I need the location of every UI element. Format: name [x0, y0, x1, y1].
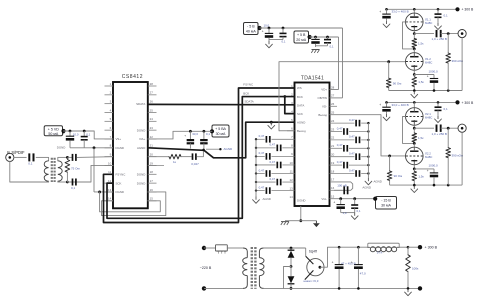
svg-text:0,1: 0,1	[444, 107, 449, 111]
svg-text:17: 17	[331, 178, 335, 182]
svg-text:0,1: 0,1	[444, 14, 449, 18]
svg-text:16: 16	[150, 188, 154, 192]
svg-text:+ 300 В: + 300 В	[462, 8, 475, 12]
svg-text:47 + 450 В: 47 + 450 В	[341, 262, 356, 266]
svg-text:12: 12	[289, 178, 293, 182]
svg-text:0,47: 0,47	[259, 185, 265, 189]
svg-text:14: 14	[108, 197, 112, 201]
svg-text:VS+: VS+	[116, 137, 122, 141]
svg-text:390 кОм: 390 кОм	[452, 154, 464, 158]
svg-text:BCK: BCK	[297, 95, 303, 99]
svg-text:14: 14	[289, 195, 293, 199]
svg-text:DGND: DGND	[116, 146, 125, 150]
svg-text:33,0 + 400 В: 33,0 + 400 В	[392, 103, 409, 107]
svg-text:0,47: 0,47	[349, 168, 355, 172]
svg-text:25: 25	[331, 111, 335, 115]
svg-text:90 Ом: 90 Ом	[393, 81, 402, 85]
svg-text:DGND: DGND	[137, 128, 146, 132]
svg-text:390 кОм: 390 кОм	[452, 59, 464, 63]
svg-text:1,5к: 1,5к	[418, 41, 424, 45]
svg-text:75 Ом: 75 Ом	[71, 166, 80, 170]
svg-text:5 Гн: 5 Гн	[377, 251, 383, 255]
svg-text:24: 24	[331, 119, 335, 123]
svg-text:23: 23	[150, 126, 154, 130]
svg-text:TDA1541: TDA1541	[301, 75, 324, 81]
svg-text:VD+: VD+	[321, 88, 327, 92]
svg-text:0,47: 0,47	[349, 152, 355, 156]
svg-text:+: +	[379, 103, 381, 107]
svg-text:0,47: 0,47	[337, 160, 343, 164]
svg-text:0,1: 0,1	[206, 132, 210, 136]
svg-text:33,0 + 400 В: 33,0 + 400 В	[392, 10, 409, 14]
svg-text:+: +	[184, 134, 186, 138]
svg-text:28: 28	[150, 82, 154, 86]
svg-text:0,47: 0,47	[337, 143, 343, 147]
svg-text:1000,0: 1000,0	[429, 164, 439, 168]
svg-text:SCK: SCK	[116, 181, 122, 185]
svg-text:+: +	[262, 29, 264, 33]
svg-text:13: 13	[289, 186, 293, 190]
svg-text:0,047: 0,047	[191, 162, 199, 166]
svg-text:Выход: Выход	[297, 129, 306, 133]
svg-text:13: 13	[108, 188, 112, 192]
svg-text:+: +	[63, 132, 65, 136]
svg-text:10: 10	[289, 161, 293, 165]
svg-text:33,0: 33,0	[192, 132, 198, 136]
svg-text:CS8412: CS8412	[122, 74, 143, 80]
svg-text:0,47: 0,47	[349, 135, 355, 139]
svg-text:AGND: AGND	[297, 120, 305, 124]
svg-text:22: 22	[331, 136, 335, 140]
svg-text:DGND: DGND	[137, 181, 146, 185]
svg-text:1,5к: 1,5к	[418, 174, 424, 178]
svg-text:Выход: Выход	[318, 113, 327, 117]
svg-text:30 мА: 30 мА	[216, 132, 226, 136]
svg-text:+: +	[332, 261, 334, 265]
svg-text:100к: 100к	[412, 266, 419, 270]
svg-text:30 мА: 30 мА	[381, 203, 391, 207]
svg-text:15: 15	[150, 197, 154, 201]
svg-text:+: +	[308, 35, 310, 39]
svg-text:DATA: DATA	[297, 103, 304, 107]
svg-text:0,47: 0,47	[349, 118, 355, 122]
svg-text:AGND: AGND	[137, 146, 145, 150]
svg-text:+: +	[427, 75, 429, 79]
svg-text:6Н8С: 6Н8С	[425, 61, 432, 65]
svg-text:0,1: 0,1	[282, 40, 286, 44]
svg-text:+ 300 В: + 300 В	[462, 101, 475, 105]
svg-text:18: 18	[150, 170, 154, 174]
svg-text:6Н8С: 6Н8С	[425, 116, 432, 120]
svg-text:11: 11	[290, 169, 293, 173]
svg-text:25: 25	[150, 108, 154, 112]
svg-text:16: 16	[331, 186, 335, 190]
svg-text:24: 24	[150, 117, 154, 121]
svg-text:15: 15	[331, 195, 335, 199]
svg-text:VD-: VD-	[322, 105, 327, 109]
svg-text:17: 17	[150, 179, 154, 183]
svg-text:+: +	[333, 201, 335, 205]
svg-text:FSYNC: FSYNC	[243, 82, 253, 86]
svg-text:19: 19	[150, 161, 154, 165]
svg-text:20: 20	[331, 153, 335, 157]
svg-text:6Ц4П: 6Ц4П	[309, 250, 318, 254]
svg-text:AGND: AGND	[263, 197, 271, 201]
svg-text:90 Ом: 90 Ом	[394, 174, 403, 178]
svg-text:1,5к: 1,5к	[418, 80, 424, 84]
svg-text:1000,0: 1000,0	[429, 69, 439, 73]
svg-text:SCK: SCK	[297, 112, 303, 116]
svg-text:WS: WS	[297, 86, 302, 90]
svg-text:AGND: AGND	[362, 185, 372, 189]
svg-text:- 5 В: - 5 В	[247, 25, 255, 29]
svg-text:+ 300 В: + 300 В	[425, 246, 438, 250]
svg-text:0,1: 0,1	[28, 162, 33, 166]
svg-text:26: 26	[331, 102, 335, 106]
svg-text:18: 18	[331, 169, 335, 173]
svg-text:FSYNC: FSYNC	[116, 173, 126, 177]
svg-text:+: +	[379, 10, 381, 14]
svg-text:+ 5 В: + 5 В	[297, 33, 306, 37]
svg-text:0,1: 0,1	[357, 209, 361, 213]
svg-text:21: 21	[150, 144, 154, 148]
svg-text:0,47: 0,47	[270, 143, 276, 147]
svg-text:0,47: 0,47	[270, 160, 276, 164]
svg-text:21: 21	[331, 144, 335, 148]
svg-text:DGND: DGND	[116, 190, 125, 194]
svg-text:AGND: AGND	[224, 147, 234, 151]
svg-text:0,1: 0,1	[71, 186, 76, 190]
svg-text:27: 27	[331, 94, 335, 98]
svg-text:50 мА: 50 мА	[48, 132, 58, 136]
svg-text:0,47: 0,47	[259, 151, 265, 155]
svg-text:20: 20	[150, 152, 154, 156]
svg-text:0,1: 0,1	[330, 45, 334, 49]
svg-text:AGND: AGND	[374, 180, 382, 184]
svg-text:OB/TW: OB/TW	[318, 96, 328, 100]
svg-text:- 15 В: - 15 В	[381, 199, 391, 203]
svg-text:0,47: 0,47	[259, 134, 265, 138]
svg-text:BCK: BCK	[243, 92, 249, 96]
svg-text:1,0 + 250 В: 1,0 + 250 В	[432, 132, 447, 136]
svg-text:22: 22	[150, 135, 154, 139]
svg-text:DGND: DGND	[57, 145, 66, 149]
svg-text:SDATA: SDATA	[136, 102, 145, 106]
svg-text:0,1: 0,1	[86, 132, 90, 136]
svg-text:40 мА: 40 мА	[246, 29, 256, 33]
svg-text:SDATA: SDATA	[245, 100, 254, 104]
svg-text:26: 26	[150, 99, 154, 103]
svg-text:1,5к: 1,5к	[418, 136, 424, 140]
svg-text:28: 28	[331, 85, 335, 89]
svg-text:1,0: 1,0	[343, 211, 347, 215]
svg-text:In S/PDIF: In S/PDIF	[7, 150, 25, 155]
svg-text:V/A-: V/A-	[321, 197, 327, 201]
svg-text:100 пФ: 100 пФ	[337, 184, 347, 188]
svg-text:10,0: 10,0	[73, 132, 79, 136]
svg-text:23: 23	[331, 127, 335, 131]
svg-text:0,47: 0,47	[259, 168, 265, 172]
svg-text:6Н8С: 6Н8С	[425, 21, 432, 25]
svg-text:47,0: 47,0	[360, 271, 366, 275]
svg-text:DGND: DGND	[297, 199, 306, 203]
svg-text:накал =6,3: накал =6,3	[304, 279, 319, 283]
svg-text:+ 5 VD: + 5 VD	[48, 127, 59, 131]
svg-text:+ 5 ВА: + 5 ВА	[215, 127, 226, 131]
svg-text:10,0: 10,0	[264, 24, 270, 28]
svg-text:DGND: DGND	[137, 173, 146, 177]
svg-text:19: 19	[331, 161, 335, 165]
svg-text:1,0 + 250 В: 1,0 + 250 В	[432, 37, 447, 41]
svg-text:27: 27	[150, 91, 154, 95]
svg-text:10: 10	[108, 161, 112, 165]
svg-text:20 мА: 20 мА	[296, 38, 306, 42]
svg-text:V/A+: V/A+	[139, 137, 146, 141]
svg-text:6Н8С: 6Н8С	[425, 155, 432, 159]
svg-text:0,47: 0,47	[270, 177, 276, 181]
svg-text:~220 В: ~220 В	[200, 266, 212, 270]
svg-text:0,47: 0,47	[337, 126, 343, 130]
svg-text:+: +	[427, 169, 429, 173]
